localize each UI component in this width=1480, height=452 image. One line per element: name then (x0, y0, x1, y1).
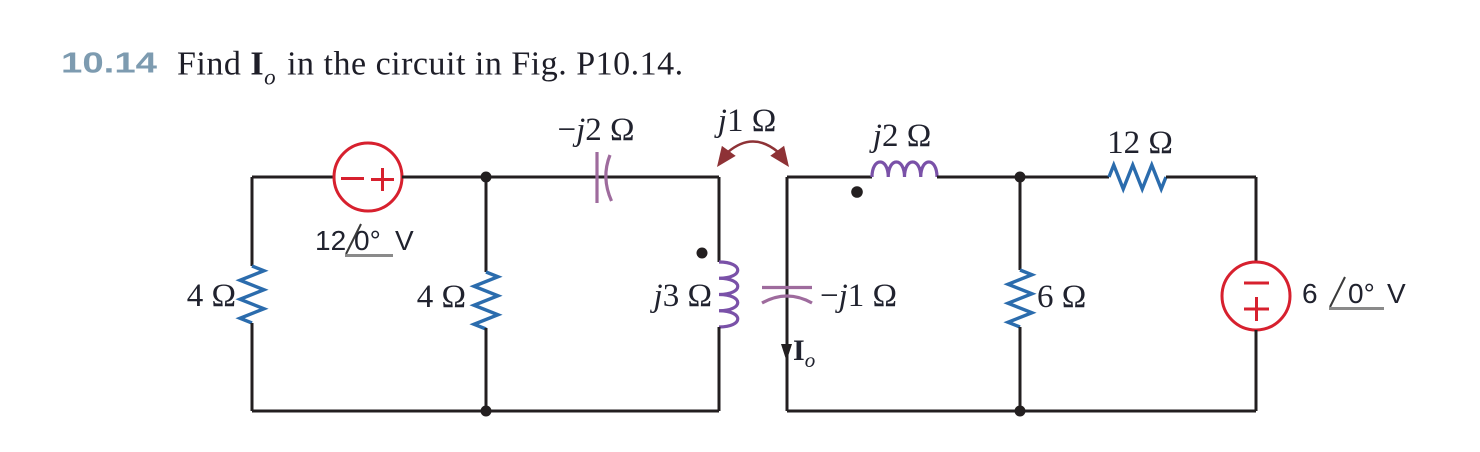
svg-text:j1 Ω: j1 Ω (714, 103, 776, 139)
wire: right loop middle vertical lower (1019, 327, 1022, 411)
voltage source 6V minus sign (1244, 282, 1269, 285)
wire: left loop left edge upper (251, 177, 254, 266)
mutual coupling left arrowhead (717, 146, 736, 167)
label 6&#937; (1037, 279, 1086, 315)
svg-text:12: 12 (315, 225, 346, 256)
node junction: bottom middle of right loop (1015, 406, 1026, 417)
wire: right loop top middle segment (937, 176, 1109, 179)
inductor j2&#937; (right coil of transformer) (872, 162, 937, 177)
wire: right loop right edge lower (1255, 330, 1258, 411)
voltage source 6V plus sign (1244, 297, 1269, 321)
label -j1&#937; (820, 278, 897, 314)
label j2&#937; (869, 118, 931, 154)
svg-text:−j2 Ω: −j2 Ω (557, 112, 634, 148)
mutual coupling right arrowhead (770, 146, 789, 167)
wire: left loop right edge lower (718, 327, 721, 411)
current arrow Io (arrowhead) (781, 344, 792, 361)
wire: right loop right edge upper (1255, 177, 1258, 262)
node junction: top middle of left loop (481, 172, 492, 183)
wire: left loop middle vertical upper (485, 177, 488, 272)
svg-text:j2 Ω: j2 Ω (869, 118, 931, 154)
label 12&#937; (1107, 125, 1173, 161)
resistor 6&#937; (middle branch) (1008, 270, 1032, 327)
label 12&#8736;0&#176;V (315, 224, 414, 256)
svg-text:j3 Ω: j3 Ω (650, 278, 712, 314)
svg-text:4 Ω: 4 Ω (187, 278, 236, 314)
wire: left loop bottom (252, 410, 719, 413)
svg-text:6 Ω: 6 Ω (1037, 279, 1086, 315)
label 4&#937; (middle) (417, 279, 466, 315)
polarity dot for j3&#937; coil (697, 248, 708, 259)
capacitor -j2&#937;: curved plate (606, 155, 612, 201)
capacitor -j1&#937;: curved plate (762, 296, 812, 303)
svg-text:V: V (1387, 278, 1406, 309)
wire: left loop left edge lower (251, 323, 254, 411)
inductor j3&#937; (left coil of transformer) (719, 262, 738, 327)
svg-text:0°: 0° (1348, 278, 1375, 309)
mutual coupling j1&#937; arc (728, 142, 778, 153)
label -j2&#937; (557, 112, 634, 148)
wire: right loop top-left segment (787, 176, 872, 179)
wire: right loop left edge (786, 177, 789, 411)
wire: right loop bottom (787, 410, 1256, 413)
wire: left loop top middle segment (402, 176, 719, 179)
polarity dot for j2&#937; coil (851, 186, 863, 198)
wire: right loop middle vertical upper (1019, 177, 1022, 270)
svg-text:12 Ω: 12 Ω (1107, 125, 1173, 161)
svg-text:10.14: 10.14 (61, 48, 157, 80)
wire: left loop top-left segment (252, 176, 334, 179)
capacitor -j2&#937; (series, top wire): straight plate (595, 152, 598, 203)
svg-text:6: 6 (1302, 278, 1318, 309)
svg-text:−j1 Ω: −j1 Ω (820, 278, 897, 314)
node junction: top middle of right loop (1015, 172, 1026, 183)
resistor 4&#937; (middle branch) (474, 272, 498, 329)
wire: left loop middle vertical lower (485, 328, 488, 411)
svg-text:4 Ω: 4 Ω (417, 279, 466, 315)
wire: right loop top-right segment (1166, 176, 1256, 179)
resistor 12&#937; (top wire) (1109, 165, 1166, 189)
node junction: bottom middle of left loop (481, 406, 492, 417)
resistor 4&#937; (left edge) (240, 266, 264, 323)
voltage source 12V minus sign (341, 177, 364, 180)
voltage source 6&#8736;0&#176;V (circle) (1222, 262, 1290, 330)
title: problem number 10.14 (61, 48, 157, 80)
capacitor -j1&#937; (in left edge): straight plate (762, 286, 812, 289)
label 6&#8736;0&#176;V (1302, 277, 1406, 309)
label j1&#937; (714, 103, 776, 139)
label Io (793, 334, 815, 372)
label 4&#937; (left) (187, 278, 236, 314)
svg-text:Io: Io (793, 334, 815, 372)
wire: left loop right edge upper (718, 177, 721, 262)
voltage source 12&#8736;0&#176;V (circle) (334, 143, 402, 211)
title: Find Io in the circuit in Fig. P10.14. (177, 46, 684, 90)
label j3&#937; (650, 278, 712, 314)
svg-text:V: V (395, 225, 414, 256)
svg-text:Find Io in the circuit in Fig.: Find Io in the circuit in Fig. P10.14. (177, 46, 684, 90)
voltage source 12V plus sign (371, 168, 394, 191)
